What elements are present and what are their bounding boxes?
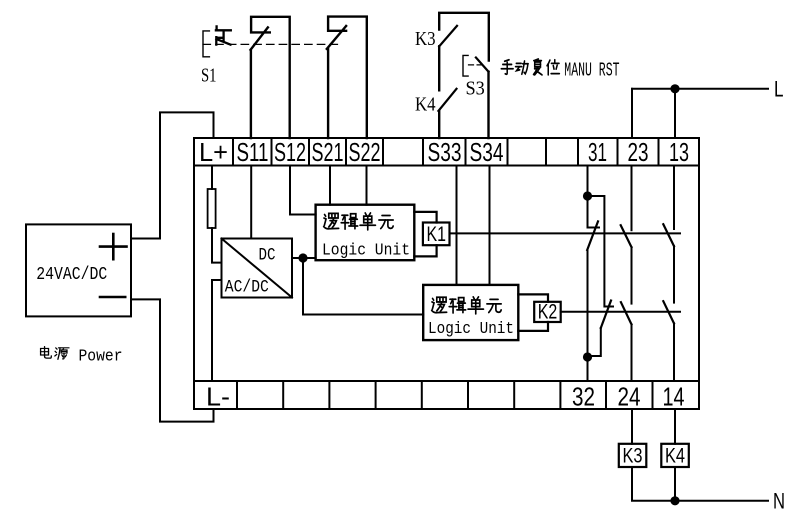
svg-text:S21: S21 bbox=[312, 137, 344, 167]
NC contact of K1 in 31-32 path bbox=[588, 196, 600, 228]
top terminal labels bbox=[199, 137, 689, 167]
NC contact of K2 in 31-32 parallel branch bbox=[588, 196, 614, 307]
svg-text:32: 32 bbox=[572, 382, 595, 412]
plus symbol on power box bbox=[100, 234, 127, 259]
N return rail bbox=[632, 467, 768, 501]
wire: AC/DC converter lower input to L- terminal bbox=[212, 280, 222, 381]
AC/DC converter box U10 bbox=[222, 239, 293, 298]
svg-text:S22: S22 bbox=[349, 137, 381, 167]
node: junction dot above 32 bbox=[583, 352, 592, 361]
svg-text:AC/DC: AC/DC bbox=[225, 278, 269, 298]
K1 actuation line to contacts bbox=[450, 232, 681, 234]
feedback loop upper hook S33-S34 bbox=[439, 13, 489, 61]
bottom terminal strip row bbox=[194, 381, 699, 409]
svg-text:K1: K1 bbox=[426, 223, 446, 246]
emergency stop channel 1 loop S11-S12 bbox=[251, 17, 290, 138]
wire: S22 terminal down to Logic Unit 1 top bbox=[366, 166, 368, 205]
minus symbol on power box bbox=[100, 296, 125, 299]
label: shoudong fuwei 手动复位 MANU RST bbox=[501, 60, 513, 74]
svg-text:24VAC/DC: 24VAC/DC bbox=[36, 265, 107, 285]
svg-text:S12: S12 bbox=[274, 137, 306, 167]
svg-text:N: N bbox=[773, 489, 785, 514]
NO contact K1 in 13-14 path bbox=[673, 166, 675, 230]
wire: terminal 31 down to junction bbox=[587, 166, 589, 197]
relay coil K2 loop wiring bbox=[518, 294, 548, 331]
wire: S11 terminal down to AC/DC top bbox=[250, 166, 252, 239]
svg-text:L-: L- bbox=[206, 382, 230, 412]
emergency stop button S1 actuator bbox=[203, 26, 231, 56]
svg-text:31: 31 bbox=[588, 137, 607, 167]
svg-text:23: 23 bbox=[628, 137, 649, 167]
svg-text:Logic Unit: Logic Unit bbox=[322, 242, 410, 261]
node: DC output junction dot bbox=[298, 253, 307, 262]
mechanical link dashed line from S1 bbox=[203, 43, 341, 45]
svg-text:14: 14 bbox=[663, 382, 685, 412]
emergency stop channel 2 loop S21-S22 bbox=[327, 17, 367, 138]
svg-text:S34: S34 bbox=[470, 137, 504, 167]
svg-text:S3: S3 bbox=[466, 78, 485, 100]
svg-text:DC: DC bbox=[259, 246, 276, 266]
wire: L+ terminal down to fuse bbox=[211, 166, 213, 190]
contactor coil K4 box bbox=[661, 444, 689, 467]
top terminal strip row bbox=[194, 138, 699, 166]
wire: power - to L- terminal bbox=[131, 299, 214, 421]
NO contact S3 manual reset bbox=[476, 58, 489, 72]
node: L rail junction dot bbox=[670, 84, 679, 93]
L supply rail bbox=[632, 88, 768, 90]
NO contact K3 in feedback loop bbox=[439, 26, 457, 47]
svg-text:Logic Unit: Logic Unit bbox=[428, 320, 514, 339]
svg-text:K3: K3 bbox=[415, 28, 436, 50]
NO contact K2 in 23-24 path bbox=[631, 247, 633, 304]
wire: S12 terminal to Logic Unit 1 left bbox=[290, 166, 316, 215]
contactor coil K3 box bbox=[619, 444, 647, 467]
svg-text:K3: K3 bbox=[623, 445, 643, 468]
fuse F1 bbox=[208, 189, 216, 228]
wire: terminal 14 down to contactor coil K4 bbox=[674, 409, 676, 444]
relay coil K2 box bbox=[534, 302, 561, 322]
wire: DC junction down and right to Logic Unit 2 bbox=[303, 258, 423, 315]
svg-text:24: 24 bbox=[618, 382, 641, 412]
main unit enclosure box bbox=[194, 138, 699, 409]
wire: power + to L+ terminal bbox=[131, 112, 214, 238]
wire: L rail down to terminal 13 bbox=[674, 89, 676, 138]
NO contact K2 in 13-14 path bbox=[673, 246, 675, 303]
relay coil K1 box bbox=[423, 223, 450, 246]
wire: terminal 24 down to contactor coil K3 bbox=[631, 409, 633, 444]
logic unit U1 box bbox=[316, 205, 415, 261]
wire: junction down to terminal 32 bbox=[587, 357, 589, 381]
power supply box 24VAC/DC bbox=[26, 224, 131, 316]
svg-text:13: 13 bbox=[669, 137, 689, 167]
K2 actuation line to contacts bbox=[561, 311, 680, 313]
node: junction dot below 31 bbox=[583, 191, 592, 200]
svg-text:Power: Power bbox=[79, 347, 123, 366]
NO contact K1 in 23-24 path bbox=[631, 166, 633, 231]
svg-text:K4: K4 bbox=[665, 445, 685, 468]
wire: K4 coil down to N rail bbox=[674, 467, 676, 501]
svg-text:S33: S33 bbox=[428, 137, 462, 167]
wire: DC output with junction to logic units bbox=[292, 257, 316, 259]
NO contact K4 in feedback loop bbox=[438, 89, 456, 111]
node: N rail junction dot bbox=[670, 496, 679, 505]
wire: S34 terminal down to Logic Unit 2 top (crosses K1 line) bbox=[489, 166, 491, 285]
svg-text:L: L bbox=[774, 77, 784, 102]
label: dianyuan Power 电源 Power bbox=[41, 347, 52, 358]
bottom terminal labels bbox=[206, 382, 685, 412]
svg-text:K2: K2 bbox=[538, 301, 558, 324]
svg-text:MANU RST: MANU RST bbox=[564, 60, 619, 82]
relay coil K1 loop wiring bbox=[414, 212, 436, 257]
svg-text:S11: S11 bbox=[237, 137, 269, 167]
svg-text:L+: L+ bbox=[199, 137, 228, 167]
svg-text:S1: S1 bbox=[201, 65, 217, 87]
wire: fuse to AC/DC converter upper input bbox=[212, 228, 222, 263]
manual reset button S3 actuator bbox=[463, 55, 468, 76]
svg-text:K4: K4 bbox=[415, 94, 436, 116]
wire: S33 terminal down to Logic Unit 2 top (crosses K1 line) bbox=[456, 166, 458, 285]
wire: S21 terminal down to Logic Unit 1 top bbox=[329, 166, 331, 205]
logic unit U2 box bbox=[423, 285, 518, 340]
wire: L rail down to terminal 23 bbox=[631, 89, 633, 138]
